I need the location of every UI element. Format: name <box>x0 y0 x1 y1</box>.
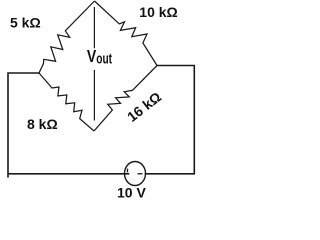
svg-text:8 kΩ: 8 kΩ <box>27 116 58 132</box>
svg-text:5 kΩ: 5 kΩ <box>10 14 41 30</box>
svg-text:out: out <box>96 51 112 67</box>
svg-text:10 V: 10 V <box>117 185 146 201</box>
svg-text:V: V <box>87 46 97 66</box>
svg-text:10 kΩ: 10 kΩ <box>139 4 177 20</box>
